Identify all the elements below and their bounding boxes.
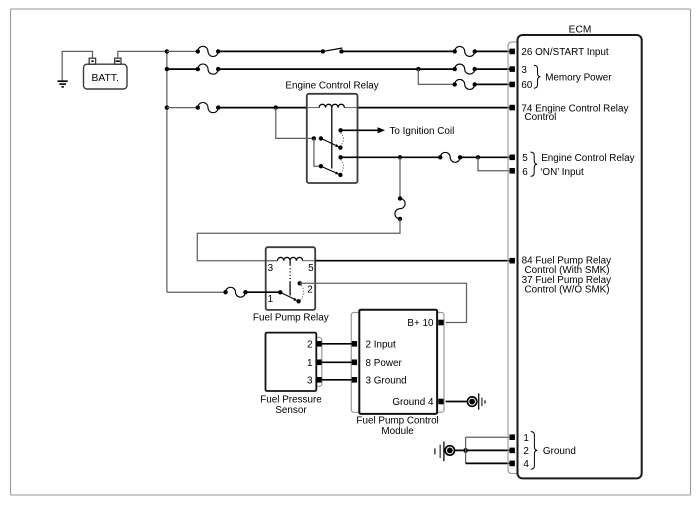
wire branch to row60 fuse (418, 69, 454, 84)
wire row56 down to fuse F8 (399, 157, 401, 198)
svg-text:3 Ground: 3 Ground (366, 376, 407, 387)
wire row1 to pin 26 (475, 50, 510, 52)
wire battery negative to ground (62, 51, 92, 81)
ignition coil arrowhead (378, 127, 385, 133)
svg-text:2: 2 (523, 446, 529, 457)
ECR lower contact arc (341, 160, 344, 173)
wire G3 branch vertical (465, 437, 467, 463)
wire bus to FPR fuse (167, 291, 226, 293)
FPCM pin Ground 4 (438, 399, 443, 405)
svg-text:Ground: Ground (543, 446, 576, 457)
wire F8 to fuel pump relay coil (197, 219, 400, 261)
wire row2 bus to fuse (167, 68, 198, 70)
battery negative terminal (89, 58, 95, 64)
FPCM connector (351, 313, 444, 413)
ECM pin 4 (510, 461, 515, 467)
svg-text:26 ON/START Input: 26 ON/START Input (521, 47, 609, 58)
engine control relay coil (319, 104, 344, 107)
svg-text:8 Power: 8 Power (366, 358, 403, 369)
wire ECR lower pivot feed (314, 138, 321, 166)
svg-text:1: 1 (523, 433, 529, 444)
node row56 branch (398, 155, 402, 159)
wire to pin 5 (478, 156, 510, 158)
fuse F3 (196, 105, 200, 109)
svg-text:60: 60 (521, 80, 532, 91)
node pin5 branch (476, 155, 480, 159)
wire FPS2 to FPCM (322, 343, 352, 345)
ignition switch SW1 (321, 49, 325, 53)
wire F9 to FPR pin1 (245, 291, 280, 293)
fuse F7 (438, 155, 442, 159)
ECR ON input brace (531, 152, 538, 176)
ECR upper contact arc (341, 133, 344, 146)
wire row2 junction to fuse (418, 68, 454, 70)
ECM pin 3 (510, 66, 515, 72)
memory power brace (534, 65, 541, 88)
battery BATT. box (84, 64, 128, 89)
ground G3 ring (445, 446, 454, 455)
svg-text:B+ 10: B+ 10 (407, 318, 434, 329)
svg-text:2: 2 (307, 285, 313, 296)
node bus row3 (165, 105, 169, 109)
svg-text:3: 3 (268, 263, 274, 274)
svg-text:5: 5 (522, 153, 528, 164)
fuse F9 (223, 290, 227, 294)
FPS pin 3 (316, 377, 321, 383)
svg-text:To Ignition Coil: To Ignition Coil (390, 126, 455, 137)
wire FPR coil to pin 84 (303, 260, 316, 262)
FPR pivot 1 (278, 290, 282, 294)
ground G2 ring (467, 397, 476, 406)
wire row1 fuse to switch (218, 50, 323, 52)
node ECR contact b (319, 136, 323, 140)
wire row3 fuse to node (218, 107, 276, 109)
node bus row2 (165, 67, 169, 71)
svg-text:‘ON’ Input: ‘ON’ Input (540, 167, 584, 178)
fuse F8 (398, 196, 402, 200)
svg-text:Module: Module (381, 426, 414, 437)
ECR lower blade (321, 166, 336, 173)
engine control relay box U1 (307, 94, 358, 183)
FPCM pin 8 Power (352, 360, 357, 366)
node row3 branch (274, 105, 278, 109)
svg-text:4: 4 (523, 459, 529, 470)
svg-text:BATT.: BATT. (92, 73, 119, 84)
FPR contact arc (301, 285, 304, 300)
ground G2 bars (478, 393, 480, 409)
ECM pin 74 (510, 105, 515, 111)
node ECR contact a (312, 136, 316, 140)
wire row1 switch to fuse (342, 50, 455, 52)
svg-text:Control: Control (525, 112, 557, 123)
ECM pin 6 (510, 168, 515, 174)
node bus row1 (165, 49, 169, 53)
fuse F1 (196, 49, 200, 53)
wire ECR to fuse row56 (341, 156, 441, 158)
wire fuse to node row56 (460, 156, 478, 158)
ECR upper blade (321, 138, 336, 145)
wire FPR 2 to B+10 (300, 283, 467, 322)
wire row2 fuse to junction (218, 68, 418, 70)
svg-text:3: 3 (521, 65, 527, 76)
wire to pin 1 (466, 436, 510, 438)
svg-text:2: 2 (307, 340, 313, 351)
wire row60 to pin 60 (475, 83, 510, 85)
wire battery positive to bus (118, 51, 167, 58)
ground G1 battery (58, 80, 68, 82)
wire FPS3 to FPCM (322, 379, 352, 381)
ground G3 bars (434, 448, 436, 454)
svg-text:Fuel Pump Relay: Fuel Pump Relay (253, 312, 329, 323)
svg-text:5: 5 (308, 263, 314, 274)
fuel pressure sensor box U4 (266, 333, 317, 391)
wire branch to pin 6 (478, 157, 510, 171)
FPR plunger (289, 261, 291, 265)
svg-text:Engine Control Relay: Engine Control Relay (541, 153, 634, 164)
wire row3 branch to contacts (276, 108, 314, 139)
fuel pressure sensor connector (308, 337, 322, 386)
ECM pin 60 (510, 82, 515, 88)
FPS pin 2 (316, 341, 321, 347)
svg-text:Control (W/O SMK): Control (W/O SMK) (525, 284, 610, 295)
FPS pin 1 (316, 360, 321, 366)
wire FPS1 to FPCM (322, 361, 352, 363)
wire Ground4 to G2 (446, 401, 468, 403)
ECM pin 84 (510, 258, 515, 264)
ground brace (531, 432, 538, 470)
ECM box U5 (518, 35, 642, 478)
FPCM pin 3 Ground (352, 377, 357, 383)
wire row3 bus to fuse (167, 107, 198, 109)
wire row1 bus to fuse (167, 50, 198, 52)
wire G3 to pin 2 (455, 449, 510, 451)
node G3 branch (463, 448, 468, 453)
fuel pump relay box U2 (266, 247, 316, 310)
ECM pin 26 (510, 49, 515, 55)
svg-text:2 Input: 2 Input (366, 340, 396, 351)
svg-text:6: 6 (522, 167, 528, 178)
wire row3 node to relay coil (276, 107, 307, 109)
fuse F5 (453, 67, 457, 71)
svg-text:1: 1 (268, 294, 274, 305)
svg-text:Engine Control Relay: Engine Control Relay (285, 81, 378, 92)
ECM pin 2 (510, 448, 515, 454)
battery positive terminal (115, 58, 121, 64)
node row2 branch (416, 67, 420, 71)
FPR stationary contact 2 (298, 281, 302, 285)
fuse F6 (453, 82, 457, 86)
FPCM pin B+ 10 (438, 320, 443, 326)
ECR lower stationary contact (338, 155, 342, 159)
svg-text:Sensor: Sensor (275, 405, 307, 416)
svg-text:Ground 4: Ground 4 (392, 397, 434, 408)
wire row3 relay to pin 74 (344, 107, 357, 109)
svg-text:3: 3 (307, 376, 313, 387)
wire row2 to pin 3 (475, 68, 510, 70)
ECR upper stationary contact (338, 128, 342, 132)
FPCM box U3 (359, 310, 437, 414)
wire main battery bus (166, 51, 168, 292)
wire to ignition coil (341, 129, 378, 131)
svg-text:Memory Power: Memory Power (545, 72, 612, 83)
FPR blade (280, 292, 294, 299)
fuel pump relay coil (278, 257, 303, 260)
engine control relay plunger (331, 108, 333, 169)
fuse F2 (196, 67, 200, 71)
wire to pin 4 (466, 462, 510, 464)
svg-text:1: 1 (307, 358, 313, 369)
ECM pin 1 (510, 434, 515, 440)
ECM pin 5 (510, 155, 515, 161)
ECM connector (508, 42, 518, 473)
ECR lower pivot (319, 164, 323, 168)
fuse F4 (453, 49, 457, 53)
FPCM pin 2 Input (352, 341, 357, 347)
